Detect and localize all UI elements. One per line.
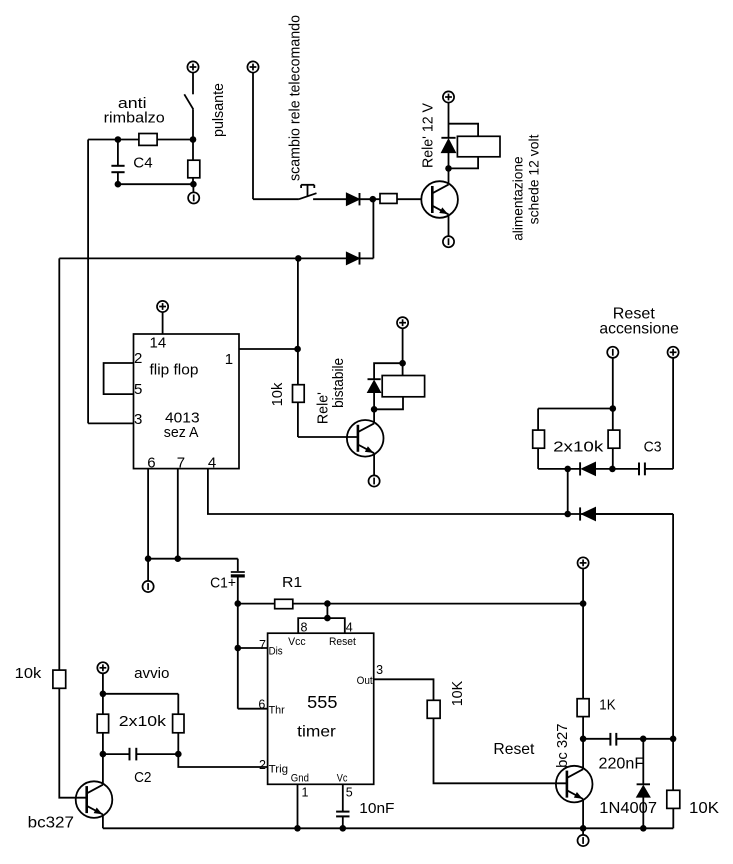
transistor Q1	[421, 181, 458, 218]
label 555 pin 8	[301, 621, 308, 635]
label 555 pin 3	[376, 663, 383, 677]
svg-text:Reset: Reset	[493, 741, 535, 758]
label pin 5	[134, 381, 142, 398]
wire gnd row	[148, 559, 238, 572]
power +12V bistabile	[397, 317, 408, 375]
svg-text:avvio: avvio	[134, 665, 169, 682]
svg-text:bc327: bc327	[28, 815, 75, 832]
label 555 pin 4	[346, 621, 353, 635]
svg-text:Rele' 12 V: Rele' 12 V	[420, 103, 437, 168]
wire pin 7 down	[175, 469, 182, 562]
svg-text:schede 12 volt: schede 12 volt	[525, 134, 541, 224]
relay coil bistabile	[374, 376, 425, 410]
ground flipflop 6-7	[143, 559, 154, 592]
label scambio rele telecomando	[287, 15, 304, 181]
pushbutton scambio	[299, 185, 317, 199]
diode D6	[580, 507, 673, 520]
relay coil 12V	[449, 124, 501, 169]
svg-text:alimentazione: alimentazione	[510, 156, 526, 241]
wire pin 6 down	[145, 469, 152, 562]
label Reset pin	[329, 636, 356, 648]
svg-text:2: 2	[134, 350, 142, 367]
wire 555 out	[374, 679, 434, 700]
wire node A to resistor	[88, 139, 139, 141]
ground Q2 emitter	[369, 453, 380, 486]
svg-text:10K: 10K	[689, 800, 719, 817]
label 555 pin 5	[346, 786, 353, 800]
svg-text:8: 8	[301, 621, 308, 635]
resistor 10K out	[427, 700, 440, 718]
capacitor C3	[639, 463, 673, 476]
wire R1 row right	[293, 600, 583, 607]
capacitor C2	[130, 748, 137, 761]
label pin 6	[147, 454, 155, 471]
wire 555 pin1 gnd	[294, 784, 301, 831]
left rail 10k	[53, 258, 87, 797]
resistor base Q1	[380, 194, 422, 204]
wire avvio node to Q5 collector	[102, 754, 104, 783]
svg-text:flip flop: flip flop	[150, 361, 199, 378]
label 220nF	[599, 755, 645, 772]
node avvio top	[100, 691, 107, 698]
wire 1K to C220	[583, 738, 610, 740]
diode D2	[346, 252, 359, 264]
wire reset top bar	[538, 409, 613, 431]
capacitor C4	[111, 140, 124, 185]
svg-text:rimbalzo: rimbalzo	[104, 110, 165, 127]
svg-text:Thr: Thr	[269, 704, 285, 716]
label C1+	[210, 575, 236, 592]
svg-text:1K: 1K	[599, 696, 615, 713]
wire C4 to pulldown	[115, 181, 197, 188]
label 10K out	[449, 681, 466, 706]
label Trig	[269, 764, 289, 776]
label Thr	[269, 704, 285, 716]
label 10nF	[359, 800, 394, 817]
node rele-collector	[445, 165, 452, 172]
resistor 1K	[577, 699, 589, 739]
wire R1 row left	[238, 603, 275, 605]
node 1K bottom	[580, 736, 587, 743]
label Gnd	[291, 773, 309, 785]
svg-text:2x10k: 2x10k	[553, 438, 604, 455]
node bistabile top	[399, 360, 406, 367]
label 555 pin 6	[258, 698, 265, 712]
svg-text:C3: C3	[644, 438, 662, 455]
diode bistabile	[368, 379, 381, 423]
label 2x10k avvio	[119, 713, 167, 730]
node C2 left	[100, 751, 107, 758]
label pin 4	[208, 454, 216, 471]
svg-text:6: 6	[258, 698, 265, 712]
resistor 10K bottom right	[667, 790, 680, 828]
node R1-line end	[580, 600, 587, 607]
label Vc	[337, 773, 348, 785]
svg-text:Dis: Dis	[269, 646, 284, 658]
bottom ground wire	[103, 827, 673, 829]
transistor Q2 bistabile	[347, 420, 384, 457]
svg-text:Out: Out	[357, 675, 373, 687]
wire C2 right	[136, 751, 181, 758]
ground pulsante	[188, 184, 199, 203]
wire pin 4 long run	[208, 469, 673, 514]
label anti rimbalzo	[104, 95, 165, 126]
svg-text:accensione: accensione	[599, 320, 679, 337]
resistor 2x10k avvio right	[173, 714, 184, 754]
svg-text:scambio rele telecomando: scambio rele telecomando	[287, 15, 304, 181]
resistor 2x10k right	[608, 430, 620, 469]
svg-text:2: 2	[259, 758, 266, 772]
label 10k left	[15, 665, 42, 682]
label pin 3	[134, 411, 142, 428]
label 555	[307, 692, 337, 712]
label flip flop	[150, 361, 199, 378]
wire pin1 node up to diode row	[297, 258, 299, 349]
svg-text:bc 327: bc 327	[554, 724, 571, 768]
wire 1K to Q4 collector	[582, 739, 584, 769]
svg-text:Vcc: Vcc	[288, 636, 306, 648]
label Out	[357, 675, 373, 687]
label pin 7	[177, 454, 185, 471]
label Rele' bistabile	[315, 358, 347, 424]
label Reset accensione	[599, 305, 679, 337]
label 1N4007	[599, 800, 657, 817]
wire reset node down	[564, 469, 571, 517]
svg-text:Trig: Trig	[269, 764, 289, 776]
wire D1 to base resistor	[360, 196, 381, 203]
wire Q4 emitter	[580, 799, 587, 832]
svg-text:555: 555	[307, 692, 337, 712]
svg-text:Gnd: Gnd	[291, 773, 309, 785]
wire Dis-Thr tee	[235, 604, 268, 709]
svg-text:1N4007: 1N4007	[599, 800, 657, 817]
label pulsante	[210, 83, 227, 137]
power +12V flipflop pin14	[157, 301, 168, 334]
resistor R1	[275, 599, 293, 608]
node A junction	[115, 136, 122, 143]
label C3	[644, 438, 662, 455]
wire pushbutton to diode	[313, 198, 346, 200]
svg-text:bistabile: bistabile	[330, 358, 347, 408]
svg-text:3: 3	[376, 663, 383, 677]
label pin 14	[150, 335, 167, 352]
label C4	[133, 154, 152, 171]
node reset top	[610, 405, 617, 412]
svg-text:C1+: C1+	[210, 575, 236, 592]
power +12V avvio	[97, 662, 108, 714]
node bistabile bottom	[371, 406, 378, 413]
wire bistabile diode branch	[374, 363, 403, 379]
power +12V rele	[443, 91, 454, 137]
svg-text:5: 5	[346, 786, 353, 800]
label pin 1	[225, 351, 233, 368]
wire left rail to flipflop pin3	[88, 140, 133, 424]
svg-text:sez A: sez A	[164, 424, 199, 441]
switch pulsante (lever)	[184, 94, 193, 139]
label 555 pin 2	[259, 758, 266, 772]
label bc327	[28, 815, 75, 832]
svg-text:10nF: 10nF	[359, 800, 394, 817]
diode D5	[580, 462, 595, 475]
diode D1	[346, 193, 359, 205]
svg-text:pulsante: pulsante	[210, 83, 227, 137]
svg-text:3: 3	[134, 411, 142, 428]
label 555 pin 1	[302, 786, 309, 800]
svg-text:10k: 10k	[15, 665, 42, 682]
transistor Q4 bc327	[556, 766, 593, 803]
node junction pulsante-bottom	[190, 136, 197, 143]
ground Q1 emitter	[443, 214, 454, 247]
wire avvio to Trig	[178, 754, 267, 767]
diode rele 12V	[441, 138, 455, 183]
svg-text:7: 7	[259, 638, 266, 652]
label avvio	[134, 665, 169, 682]
right rail	[670, 514, 677, 790]
label Rele' 12 V	[420, 103, 437, 168]
power +12V bottom right	[578, 557, 589, 698]
svg-text:4: 4	[208, 454, 216, 471]
resistor 10k bistabile	[293, 349, 357, 437]
svg-text:220nF: 220nF	[599, 755, 645, 772]
svg-text:4: 4	[346, 621, 353, 635]
capacitor C1	[231, 572, 245, 604]
label bc 327 right	[554, 724, 571, 768]
svg-text:C2: C2	[134, 769, 151, 786]
resistor pulldown pulsante	[188, 140, 200, 185]
wire D2 up to node	[360, 199, 374, 258]
label C2	[134, 769, 151, 786]
wire reset bottom bar	[538, 466, 580, 473]
svg-text:1: 1	[225, 351, 233, 368]
capacitor 220nF	[610, 733, 673, 746]
diode 1N4007	[637, 739, 650, 832]
svg-text:Reset: Reset	[329, 636, 356, 648]
svg-text:10k: 10k	[269, 382, 286, 406]
label 4013	[165, 410, 200, 427]
IC flip-flop 4013 box	[134, 334, 240, 469]
wire D5 to C3	[596, 466, 640, 473]
svg-text:Vc: Vc	[337, 773, 348, 785]
node C1-R1	[235, 600, 242, 607]
svg-text:timer: timer	[297, 723, 336, 740]
label Dis	[269, 646, 284, 658]
label Vcc	[288, 636, 306, 648]
wire lower diode row	[59, 255, 346, 262]
resistor 2x10k left	[533, 430, 545, 469]
label sez A	[164, 424, 199, 441]
label pin 2	[134, 350, 142, 367]
power +12V scambio	[247, 61, 299, 199]
svg-text:R1: R1	[282, 574, 302, 591]
svg-text:2x10k: 2x10k	[119, 713, 167, 730]
svg-text:10K: 10K	[449, 681, 466, 706]
wire C2 left	[103, 753, 130, 755]
wire Vcc-Reset tee	[298, 604, 345, 634]
wire pins 2-5 feedback loop	[104, 363, 134, 394]
ground reset accensione	[607, 347, 618, 430]
IC 555 box	[268, 633, 374, 784]
svg-text:C4: C4	[133, 154, 152, 171]
label Reset bc327	[493, 741, 535, 758]
wire avvio top bar	[103, 694, 178, 714]
transistor Q5 bc327	[76, 781, 113, 818]
wire pin 1 to node	[239, 346, 301, 353]
label timer	[297, 723, 336, 740]
svg-text:1: 1	[302, 786, 309, 800]
power +12V reset accensione	[668, 347, 679, 469]
wire out resistor to Q4 base	[434, 718, 567, 783]
wire 555 pin5	[340, 784, 347, 831]
label 555 pin 7	[259, 638, 266, 652]
label 10k bistabile	[269, 382, 286, 406]
power +12V pulsante	[187, 61, 198, 94]
resistor 2x10k avvio left	[97, 714, 108, 754]
label alimentazione schede 12 volt	[510, 134, 542, 240]
label R1	[282, 574, 302, 591]
label 1K	[599, 696, 615, 713]
resistor anti-rimbalzo	[139, 134, 193, 146]
wire Q5 emitter to bottom	[102, 815, 104, 829]
svg-text:5: 5	[134, 381, 142, 398]
label 10K bottom right	[689, 800, 719, 817]
capacitor 10nF	[336, 812, 349, 829]
ground Q4	[578, 828, 589, 846]
svg-text:14: 14	[150, 335, 167, 352]
label 2x10k reset	[553, 438, 604, 455]
